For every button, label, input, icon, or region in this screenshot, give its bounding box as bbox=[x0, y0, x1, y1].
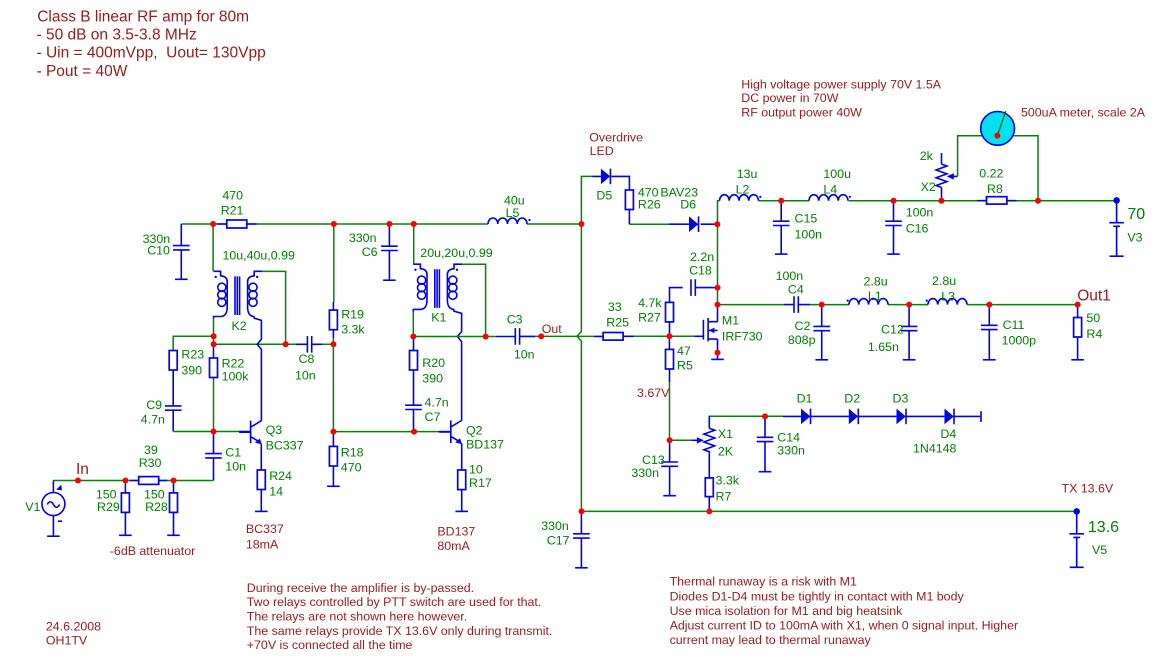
ground below C15 bbox=[775, 253, 788, 255]
diode D5 overdrive LED bbox=[601, 169, 611, 185]
resistor R21 bbox=[217, 220, 257, 228]
svg-text:C18: C18 bbox=[689, 263, 712, 277]
ground below C17 bbox=[575, 567, 588, 569]
wire Q3 collector with hop bbox=[254, 317, 261, 421]
ground below V1 bbox=[47, 535, 60, 537]
svg-text:4.7k: 4.7k bbox=[638, 296, 662, 310]
svg-text:Out: Out bbox=[542, 322, 563, 336]
svg-text:High voltage power supply 70V: High voltage power supply 70V 1.5A bbox=[741, 77, 941, 91]
svg-text:C6: C6 bbox=[362, 245, 378, 259]
resistor R25 bbox=[603, 333, 623, 341]
capacitor C10 bbox=[173, 224, 190, 279]
resistor R17 bbox=[458, 470, 466, 490]
svg-text:R18: R18 bbox=[341, 445, 364, 459]
ground below R24 bbox=[255, 510, 268, 512]
svg-text:R4: R4 bbox=[1086, 327, 1102, 341]
capacitor C1 bbox=[205, 454, 222, 458]
svg-text:R5: R5 bbox=[677, 358, 693, 372]
svg-text:R26: R26 bbox=[638, 197, 661, 211]
svg-text:-6dB attenuator: -6dB attenuator bbox=[110, 544, 195, 558]
svg-text:3.67V: 3.67V bbox=[637, 386, 670, 400]
inductor L1 bbox=[847, 299, 888, 305]
svg-text:R8: R8 bbox=[987, 182, 1003, 196]
svg-text:1N4148: 1N4148 bbox=[913, 442, 957, 456]
svg-text:Thermal runaway is a risk with: Thermal runaway is a risk with M1 bbox=[670, 575, 857, 589]
inductor L3 bbox=[926, 299, 967, 305]
svg-text:R7: R7 bbox=[716, 490, 732, 504]
svg-text:Q2: Q2 bbox=[466, 424, 483, 438]
wire stage2 base wire y=431.6 bbox=[333, 431, 438, 433]
svg-text:C17: C17 bbox=[547, 534, 570, 548]
svg-text:C7: C7 bbox=[425, 410, 441, 424]
svg-text:10n: 10n bbox=[225, 460, 246, 474]
svg-text:Diodes D1-D4 must be tightly i: Diodes D1-D4 must be tightly in contact … bbox=[670, 589, 965, 603]
wire R18 column bbox=[332, 432, 334, 487]
svg-text:Adjust current ID to 100mA wit: Adjust current ID to 100mA with X1, when… bbox=[670, 619, 1019, 633]
wire stage2 supply column x=413.5 bbox=[412, 224, 414, 337]
svg-text:3.3k: 3.3k bbox=[716, 473, 740, 487]
svg-text:D1: D1 bbox=[797, 391, 813, 405]
ground below C16 bbox=[887, 253, 900, 255]
svg-text:14: 14 bbox=[269, 485, 283, 499]
inductor L2 bbox=[720, 195, 762, 201]
svg-text:DC power in 70W: DC power in 70W bbox=[741, 91, 838, 105]
ground below R18 bbox=[327, 485, 340, 487]
svg-text:R19: R19 bbox=[341, 307, 364, 321]
svg-text:X1: X1 bbox=[718, 427, 733, 441]
svg-text:C12: C12 bbox=[881, 322, 904, 336]
capacitor C17 bbox=[573, 511, 590, 567]
wire Q2 emitter to R17 and ground bbox=[461, 443, 463, 511]
resistor R4 bbox=[1074, 305, 1082, 360]
svg-text:The relays are not shown here: The relays are not shown here however. bbox=[247, 610, 467, 624]
svg-text:IRF730: IRF730 bbox=[722, 330, 763, 344]
capacitor C6 bbox=[381, 224, 398, 280]
svg-text:C8: C8 bbox=[299, 352, 315, 366]
ground below C2 bbox=[815, 359, 828, 361]
wire R23/C9 feedback branch bbox=[173, 336, 214, 350]
resistor R18 bbox=[329, 446, 337, 466]
resistor R26 bbox=[625, 190, 633, 210]
svg-text:L2: L2 bbox=[736, 182, 750, 196]
capacitor C13 bbox=[661, 440, 678, 495]
resistor R24 bbox=[257, 470, 265, 490]
wire vertical x=581 from rail down to bottom rail with hop over gate wire bbox=[577, 224, 581, 511]
svg-text:- Uin = 400mVpp, Uout= 130Vpp: - Uin = 400mVpp, Uout= 130Vpp bbox=[37, 45, 266, 62]
wire X1 wiper bbox=[670, 439, 692, 441]
svg-text:C9: C9 bbox=[146, 398, 162, 412]
svg-text:18mA: 18mA bbox=[246, 538, 279, 552]
resistor R22 bbox=[210, 358, 218, 378]
svg-text:2.2n: 2.2n bbox=[690, 250, 714, 264]
source V1 bbox=[42, 481, 65, 537]
svg-text:RF output power 40W: RF output power 40W bbox=[741, 106, 862, 120]
MOSFET M1 IRF730 bbox=[703, 318, 717, 341]
wire bottom TX rail y=511 bbox=[581, 510, 1076, 512]
svg-text:C13: C13 bbox=[642, 453, 665, 467]
capacitor C16 bbox=[885, 201, 902, 254]
svg-text:K2: K2 bbox=[232, 319, 247, 333]
svg-text:D4: D4 bbox=[940, 427, 956, 441]
ground below C10 bbox=[175, 278, 188, 280]
svg-text:2k: 2k bbox=[920, 149, 934, 163]
svg-text:Out1: Out1 bbox=[1077, 288, 1111, 305]
svg-text:10: 10 bbox=[469, 462, 483, 476]
wire top supply rail y=224 bbox=[181, 223, 581, 225]
wire stage1 supply column x=213.5 bbox=[212, 224, 214, 344]
wire R27 and C18 branch bbox=[670, 288, 718, 337]
wire Q2 collector with hop bbox=[454, 309, 462, 420]
wire C1 column bbox=[213, 432, 215, 481]
svg-text:100n: 100n bbox=[906, 206, 934, 220]
svg-text:10n: 10n bbox=[295, 368, 316, 382]
svg-text:L5: L5 bbox=[506, 206, 520, 220]
resistor R29 bbox=[121, 481, 129, 536]
resistor R20 bbox=[410, 351, 418, 371]
resistor R23 bbox=[169, 351, 177, 371]
svg-text:L3: L3 bbox=[941, 289, 955, 303]
ground below C6 bbox=[383, 279, 396, 281]
svg-text:Two relays controlled by PTT s: Two relays controlled by PTT switch are … bbox=[247, 595, 542, 609]
svg-text:47: 47 bbox=[677, 344, 691, 358]
svg-text:LED: LED bbox=[590, 144, 614, 158]
capacitor C7 bbox=[405, 405, 422, 409]
svg-text:330n: 330n bbox=[777, 444, 805, 458]
transformer K2 bbox=[214, 271, 263, 319]
ground below R17 bbox=[455, 510, 468, 512]
ground below C11 bbox=[983, 359, 996, 361]
svg-text:X2: X2 bbox=[921, 180, 936, 194]
svg-text:C4: C4 bbox=[788, 282, 804, 296]
svg-text:OH1TV: OH1TV bbox=[46, 634, 88, 648]
svg-text:470: 470 bbox=[341, 461, 362, 475]
svg-text:C14: C14 bbox=[777, 431, 800, 445]
svg-text:2.8u: 2.8u bbox=[932, 274, 956, 288]
svg-text:C1: C1 bbox=[225, 446, 241, 460]
svg-text:100k: 100k bbox=[222, 370, 250, 384]
resistor R5 bbox=[666, 349, 674, 369]
svg-text:500uA meter, scale 2A: 500uA meter, scale 2A bbox=[1021, 105, 1146, 119]
ground below C13 bbox=[663, 495, 676, 497]
svg-text:330n: 330n bbox=[541, 519, 569, 533]
resistor R28 bbox=[170, 481, 178, 536]
ground below C12 bbox=[903, 359, 916, 361]
labels green bbox=[25, 149, 1145, 557]
svg-text:L1: L1 bbox=[868, 289, 882, 303]
svg-text:R25: R25 bbox=[606, 316, 629, 330]
svg-text:2.8u: 2.8u bbox=[864, 275, 888, 289]
svg-text:C11: C11 bbox=[1003, 318, 1025, 332]
svg-text:R24: R24 bbox=[269, 469, 292, 483]
svg-text:BD137: BD137 bbox=[466, 438, 504, 452]
svg-text:2K: 2K bbox=[718, 444, 734, 458]
svg-text:R28: R28 bbox=[145, 500, 168, 514]
svg-text:R21: R21 bbox=[221, 203, 244, 217]
svg-text:BC337: BC337 bbox=[246, 522, 284, 536]
svg-text:- Pout = 40W: - Pout = 40W bbox=[37, 63, 128, 80]
wire input line y=480.5 bbox=[53, 480, 213, 482]
wire K1 secondary top to C3 junction bbox=[462, 264, 486, 336]
svg-text:33: 33 bbox=[608, 300, 622, 314]
svg-text:C10: C10 bbox=[147, 244, 170, 258]
wire stage1 base wire y=431.5 bbox=[214, 431, 240, 433]
wire rail from R26 through D6 to node x717 bbox=[629, 223, 669, 225]
svg-text:C16: C16 bbox=[906, 221, 929, 235]
svg-text:D3: D3 bbox=[893, 391, 909, 405]
inductor L4 bbox=[809, 195, 851, 201]
wire R19 column x=333.4 bbox=[333, 224, 335, 302]
svg-text:In: In bbox=[76, 461, 89, 478]
capacitor C15 bbox=[773, 201, 790, 254]
svg-text:50: 50 bbox=[1086, 311, 1100, 325]
svg-text:R23: R23 bbox=[181, 348, 204, 362]
wire K2 secondary top to base junction bbox=[262, 271, 285, 344]
svg-text:70: 70 bbox=[1127, 206, 1145, 223]
svg-text:V5: V5 bbox=[1092, 543, 1107, 557]
capacitor C2 bbox=[813, 305, 830, 360]
transistor Q3 BC337 bbox=[239, 421, 262, 445]
svg-text:R30: R30 bbox=[139, 456, 162, 470]
ground below M1 source bbox=[711, 358, 724, 360]
svg-text:R22: R22 bbox=[222, 356, 245, 370]
svg-text:3.3k: 3.3k bbox=[341, 323, 365, 337]
capacitor C12 bbox=[901, 305, 918, 360]
svg-text:330n: 330n bbox=[349, 231, 377, 245]
diode D2 bbox=[849, 409, 859, 425]
diode D1 bbox=[801, 409, 811, 425]
capacitor C8 bbox=[307, 336, 311, 353]
svg-text:Q3: Q3 bbox=[266, 423, 283, 437]
svg-text:13u: 13u bbox=[737, 167, 758, 181]
svg-text:K1: K1 bbox=[431, 310, 446, 324]
battery V5 13.6V bbox=[1069, 511, 1084, 567]
svg-text:808p: 808p bbox=[788, 333, 816, 347]
svg-text:C2: C2 bbox=[795, 319, 811, 333]
transformer K1 bbox=[413, 264, 462, 312]
svg-text:10u,40u,0.99: 10u,40u,0.99 bbox=[223, 248, 295, 262]
svg-text:390: 390 bbox=[422, 371, 443, 385]
wire Q3 emitter to R24 and ground bbox=[260, 444, 262, 512]
wire X2 wiper bbox=[951, 175, 958, 177]
svg-text:20u,20u,0.99: 20u,20u,0.99 bbox=[420, 246, 492, 260]
wire X1 top bias wire to D1 bbox=[709, 416, 783, 428]
svg-text:Use mica isolation for M1 and: Use mica isolation for M1 and big heatsi… bbox=[670, 604, 904, 618]
svg-text:C3: C3 bbox=[507, 312, 523, 326]
svg-text:C15: C15 bbox=[795, 211, 818, 225]
potentiometer X2 bbox=[936, 153, 947, 201]
wire meter loop bbox=[958, 136, 1038, 201]
wire R5 column below gate junction bbox=[668, 336, 670, 349]
ground below R4 bbox=[1071, 359, 1084, 361]
resistor R8 bbox=[977, 197, 1017, 204]
diode D6 BAV23 bbox=[689, 216, 699, 232]
ground below C14 bbox=[759, 471, 772, 473]
svg-text:M1: M1 bbox=[722, 313, 739, 327]
battery V3 70V bbox=[1109, 200, 1124, 256]
wire drain column x=717.5 bbox=[717, 224, 719, 304]
resistor R7 bbox=[705, 451, 713, 511]
capacitor C4 bbox=[794, 296, 798, 313]
resistor R19 bbox=[329, 310, 337, 330]
capacitor C18 bbox=[691, 279, 695, 296]
diode D3 bbox=[897, 409, 907, 425]
svg-text:V3: V3 bbox=[1127, 230, 1142, 244]
svg-text:390: 390 bbox=[181, 363, 202, 377]
svg-text:470: 470 bbox=[222, 188, 243, 202]
svg-text:R29: R29 bbox=[97, 500, 120, 514]
wire 70V rail y=200.7 bbox=[718, 201, 1117, 225]
svg-text:100n: 100n bbox=[795, 228, 823, 242]
svg-text:During receive the amplifier i: During receive the amplifier is by-passe… bbox=[247, 581, 474, 595]
svg-text:R17: R17 bbox=[469, 476, 492, 490]
capacitor C3 bbox=[515, 328, 519, 345]
inductor L5 bbox=[488, 218, 531, 224]
transistor Q2 BD137 bbox=[439, 420, 462, 444]
svg-text:- 50 dB on 3.5-3.8 MHz: - 50 dB on 3.5-3.8 MHz bbox=[37, 26, 197, 43]
resistor R27 bbox=[666, 302, 674, 322]
capacitor C9 bbox=[165, 406, 182, 410]
svg-text:0.22: 0.22 bbox=[979, 166, 1003, 180]
diode D4 1N4148 bbox=[945, 409, 955, 425]
potentiometer X1 bbox=[704, 416, 715, 451]
svg-text:100n: 100n bbox=[776, 269, 804, 283]
meter 500uA bbox=[981, 111, 1015, 145]
svg-text:V1: V1 bbox=[25, 500, 40, 514]
svg-text:TX 13.6V: TX 13.6V bbox=[1062, 482, 1114, 496]
wire gate line y=336.4 from K1 bottom to M1 gate bbox=[413, 336, 496, 338]
svg-text:13.6: 13.6 bbox=[1088, 519, 1119, 536]
ground below R29 bbox=[119, 534, 132, 536]
svg-text:24.6.2008: 24.6.2008 bbox=[46, 620, 101, 634]
svg-text:BD137: BD137 bbox=[437, 525, 475, 539]
wire D5/R26 overdrive branch bbox=[581, 176, 592, 224]
capacitor C14 bbox=[757, 416, 774, 471]
wire output line y=304.6 bbox=[718, 304, 784, 306]
svg-text:Class B linear RF amp for 80m: Class B linear RF amp for 80m bbox=[37, 9, 249, 26]
svg-text:4.7n: 4.7n bbox=[425, 395, 449, 409]
svg-text:The same relays provide TX 13.: The same relays provide TX 13.6V only du… bbox=[247, 624, 553, 638]
svg-text:Overdrive: Overdrive bbox=[589, 131, 643, 145]
capacitor C11 bbox=[981, 305, 998, 360]
wire C8 coupling wire y=344.3 bbox=[214, 343, 297, 345]
svg-text:80mA: 80mA bbox=[437, 539, 470, 553]
svg-text:current may lead to thermal ru: current may lead to thermal runaway bbox=[670, 633, 872, 647]
svg-text:100u: 100u bbox=[823, 167, 851, 181]
svg-text:+70V is connected all the time: +70V is connected all the time bbox=[247, 638, 413, 652]
svg-text:1000p: 1000p bbox=[1002, 333, 1037, 347]
svg-text:1.65n: 1.65n bbox=[868, 340, 899, 354]
node dot 70V bbox=[1113, 197, 1120, 204]
svg-text:10n: 10n bbox=[514, 347, 535, 361]
svg-text:L4: L4 bbox=[823, 182, 837, 196]
resistor R30 bbox=[130, 477, 167, 485]
ground below R28 bbox=[167, 534, 180, 536]
svg-text:D5: D5 bbox=[596, 188, 612, 202]
svg-text:R20: R20 bbox=[422, 356, 445, 370]
svg-text:330n: 330n bbox=[631, 466, 659, 480]
node dot TX13.6 bbox=[1073, 508, 1080, 515]
svg-text:BC337: BC337 bbox=[266, 439, 304, 453]
svg-text:4.7n: 4.7n bbox=[141, 413, 165, 427]
wire terminator after D4 bbox=[980, 411, 982, 422]
svg-text:D6: D6 bbox=[680, 197, 696, 211]
svg-text:D2: D2 bbox=[844, 391, 860, 405]
svg-text:R27: R27 bbox=[638, 310, 661, 324]
